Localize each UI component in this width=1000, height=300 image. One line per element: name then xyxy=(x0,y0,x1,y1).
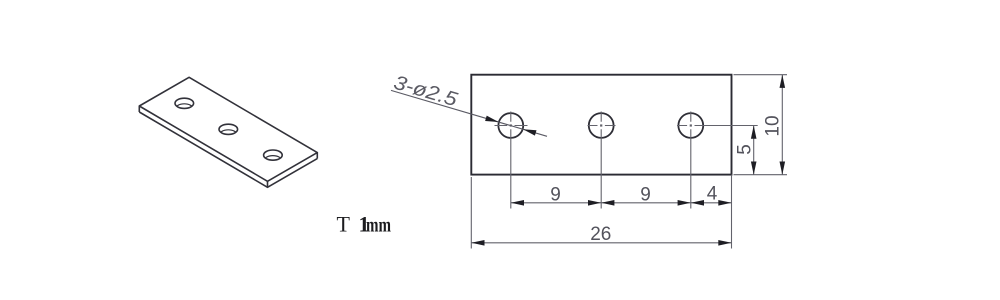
dim 4 line hole3-right edge xyxy=(691,202,732,204)
svg-text:T: T xyxy=(337,212,351,237)
iso hole 2 bottom arc xyxy=(219,130,237,140)
isometric plate bottom front edge xyxy=(139,112,317,187)
isometric plate front vertical edge xyxy=(267,181,269,187)
leader arrow right xyxy=(523,129,537,135)
leader arrow left xyxy=(485,116,499,122)
iso hole 3 bottom arc xyxy=(264,156,282,166)
dim 5 arrow top xyxy=(751,126,757,139)
svg-text:mm: mm xyxy=(366,215,391,237)
hole 2 center dot xyxy=(600,124,602,126)
hole 2 circle xyxy=(589,113,614,138)
top extension line right of rect xyxy=(734,74,788,76)
hole 1 circle xyxy=(498,113,523,138)
hole 3 center dot xyxy=(690,124,692,126)
hole 1 vertical centerline xyxy=(510,112,512,209)
dim 4 arrow right xyxy=(718,200,731,206)
dim 9b arrow right xyxy=(678,200,691,206)
svg-text:3-ø2.5: 3-ø2.5 xyxy=(391,72,461,112)
dim 9 line hole2-hole3 xyxy=(601,202,691,204)
dim 26 arrow right xyxy=(718,240,731,246)
isometric plate right vertical edge xyxy=(316,153,318,159)
dim 9 arrow left xyxy=(511,200,524,206)
svg-text:26: 26 xyxy=(590,224,611,245)
leader line 3-dia2.5 xyxy=(391,90,547,136)
dim 10 arrow bottom xyxy=(780,162,786,175)
isometric plate top face outline xyxy=(139,77,317,181)
iso hole 1 bottom arc xyxy=(175,104,193,114)
svg-text:9: 9 xyxy=(550,184,561,205)
svg-text:5: 5 xyxy=(735,144,756,155)
hole 2 horizontal centerline xyxy=(588,125,616,127)
hole 2 vertical centerline xyxy=(600,112,602,209)
hole 3 vertical centerline xyxy=(690,112,692,209)
iso hole 2 xyxy=(219,124,238,134)
extension line below rect left edge xyxy=(470,177,472,249)
dim 10 arrow top xyxy=(780,75,786,88)
dim 4 arrow left xyxy=(691,200,704,206)
hole 1 center dot xyxy=(510,124,512,126)
hole 3 circle xyxy=(678,113,703,138)
bottom extension line right of rect xyxy=(734,174,788,176)
dim 10 line xyxy=(781,75,783,175)
iso hole 1 xyxy=(175,98,194,108)
dim 9b arrow left xyxy=(601,200,614,206)
dim 9 line hole1-hole2 xyxy=(511,202,601,204)
hole 3 horizontal centerline extended right for 5 dim xyxy=(677,125,758,127)
dim 5 arrow bottom xyxy=(751,162,757,175)
isometric plate left vertical edge xyxy=(138,106,140,112)
iso hole 3 xyxy=(264,150,283,160)
dim 9 arrow right xyxy=(588,200,601,206)
extension line below rect right edge xyxy=(731,175,733,249)
front view rectangle xyxy=(471,75,731,175)
dim 26 line xyxy=(471,242,731,244)
dim 26 arrow left xyxy=(471,240,484,246)
svg-text:10: 10 xyxy=(763,115,784,136)
svg-text:9: 9 xyxy=(640,184,651,205)
svg-text:4: 4 xyxy=(707,183,718,204)
dim 5 line xyxy=(753,126,755,175)
hole 1 horizontal centerline xyxy=(495,125,528,127)
